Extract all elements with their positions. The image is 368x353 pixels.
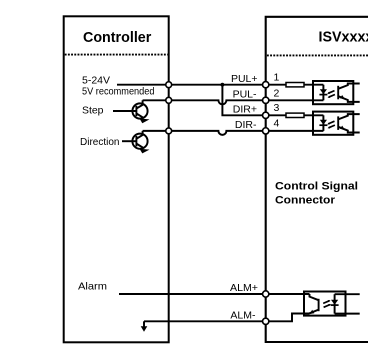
svg-text:3: 3	[273, 102, 279, 114]
wire ALM- return	[144, 320, 262, 322]
wire supply branch to DIR+	[222, 85, 262, 116]
pin 3 DIR+	[263, 112, 269, 118]
wire pin2 to optocoupler U1	[269, 99, 323, 101]
pin 1 PUL+	[263, 82, 269, 88]
pin ALM+	[263, 291, 269, 297]
pin ALM-	[263, 318, 269, 324]
optocoupler U3 alarm mirrored	[304, 292, 360, 316]
svg-text:ISVxxxxx: ISVxxxxx	[319, 30, 368, 46]
wire ALM+ pin to U3	[269, 293, 309, 295]
resistor R1	[286, 83, 304, 87]
pin 2 PUL-	[263, 97, 269, 103]
wire PUL+ row	[169, 84, 262, 86]
wire R2 to optocoupler U2	[304, 114, 323, 116]
wire Direction collector to terminal	[143, 130, 166, 132]
svg-text:2: 2	[273, 88, 279, 100]
svg-text:PUL+: PUL+	[231, 73, 258, 85]
svg-text:Control Signal: Control Signal	[275, 181, 358, 193]
pin 4 DIR-	[263, 128, 269, 134]
controller dashed divider	[65, 54, 168, 56]
svg-text:Controller: Controller	[83, 30, 152, 46]
wire pin4 to optocoupler U2	[269, 130, 323, 132]
svg-text:4: 4	[273, 118, 279, 130]
drive dashed divider	[267, 54, 368, 56]
wire Step collector to terminal	[143, 99, 166, 101]
ground arrow on ALM- return	[141, 321, 148, 331]
terminal Direction	[166, 128, 172, 134]
svg-text:Connector: Connector	[275, 194, 336, 206]
svg-text:Alarm: Alarm	[78, 280, 107, 292]
transistor Q1 Step	[113, 100, 150, 123]
svg-text:PUL-: PUL-	[233, 88, 257, 100]
wire pin1 to R1	[269, 84, 286, 86]
optocoupler U1	[313, 81, 360, 104]
svg-text:Direction: Direction	[80, 136, 120, 148]
svg-text:DIR-: DIR-	[235, 119, 257, 131]
wire ALM- pin jog to U3	[269, 314, 309, 322]
transistor Q2 Direction	[122, 131, 150, 154]
terminal Step	[166, 97, 172, 103]
resistor R2	[286, 113, 304, 117]
wire PUL- row with crossover hop	[169, 100, 262, 104]
svg-text:5V recommended: 5V recommended	[82, 85, 155, 97]
terminal supply	[166, 82, 172, 88]
wire 5-24V supply lead	[117, 84, 166, 86]
label Control Signal Connector	[275, 181, 358, 207]
svg-text:Step: Step	[82, 105, 104, 117]
svg-text:DIR+: DIR+	[233, 103, 257, 115]
svg-text:ALM+: ALM+	[230, 282, 258, 294]
wire pin3 to R2	[269, 114, 286, 116]
optocoupler U2	[313, 112, 360, 135]
svg-text:1: 1	[273, 72, 279, 84]
junction supply branch	[221, 83, 225, 87]
wire DIR- row with crossover hop	[169, 131, 262, 135]
drive box U-ISV	[266, 17, 368, 342]
controller box	[64, 16, 169, 342]
wire Alarm	[119, 293, 262, 295]
wire R1 to optocoupler U1	[304, 84, 323, 86]
svg-text:ALM-: ALM-	[230, 309, 256, 321]
